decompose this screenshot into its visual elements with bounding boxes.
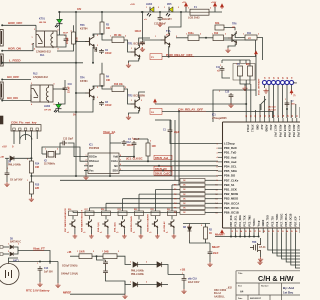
- svg-text:2: 2: [201, 225, 202, 227]
- ground Q9: [172, 234, 177, 238]
- wire RTC Vss down: [85, 170, 87, 175]
- svg-text:C10: C10: [68, 84, 73, 86]
- resistor RP1 1K: [180, 188, 205, 192]
- wire XTAL2 to MCU: [250, 84, 252, 118]
- wire R3 to R5: [102, 34, 112, 40]
- svg-text:22: 22: [231, 231, 233, 233]
- wire RL1 coil to C3: [57, 35, 66, 37]
- wire P0 to pin: [205, 184, 218, 186]
- capacitor C10: [63, 86, 68, 92]
- diode D10: [133, 262, 138, 267]
- IC1 bottom pin 11: [281, 228, 283, 233]
- wire ISP pin2 down: [268, 85, 270, 119]
- svg-text:1: 1: [155, 36, 156, 38]
- svg-text:50: 50: [282, 77, 284, 79]
- svg-text:GND2: GND2: [262, 219, 265, 226]
- wire xtal net left: [155, 103, 246, 105]
- junction: [178, 110, 180, 112]
- IC1 top pin 3: [259, 118, 261, 122]
- svg-text:PC6_TOSC: PC6_TOSC: [276, 213, 279, 226]
- wire POR vertical: [255, 40, 257, 57]
- wire Q9 emitter: [173, 229, 175, 234]
- wire Vbat bus y176: [31, 175, 218, 177]
- junction: [101, 85, 103, 87]
- svg-text:2: 2: [200, 34, 201, 36]
- wire ISP pin1 to ground: [264, 85, 266, 89]
- svg-text:Title: Title: [238, 272, 243, 275]
- svg-text:39: 39: [287, 115, 289, 117]
- svg-text:ADC3_PA3: ADC3_PA3: [292, 125, 295, 138]
- capacitor C21: [103, 269, 108, 275]
- wire R15 to ground: [30, 194, 32, 197]
- fuse F1: [190, 9, 209, 15]
- svg-text:1: 1: [45, 149, 46, 151]
- IC1 left pin 3: [218, 152, 223, 154]
- wire P4 drop to cell: [105, 203, 107, 211]
- svg-text:9: 9: [216, 180, 217, 182]
- svg-text:10: 10: [264, 77, 266, 79]
- svg-text:LED2: LED2: [44, 105, 51, 108]
- wire Q6 emitter: [123, 229, 125, 234]
- svg-text:DBUS_CaSC: DBUS_CaSC: [155, 173, 170, 176]
- svg-text:HN ON: HN ON: [39, 22, 46, 24]
- ground Q8: [155, 234, 160, 238]
- driver cell Q9: [168, 211, 177, 216]
- svg-text:1: 1: [186, 34, 187, 36]
- svg-text:C9 1uF 50V: C9 1uF 50V: [10, 180, 23, 182]
- svg-text:RTC 3.0V Battery: RTC 3.0V Battery: [26, 289, 50, 293]
- svg-text:Number: Number: [261, 286, 269, 288]
- wire cell 5 res to Q: [155, 216, 157, 220]
- svg-text:R18: R18: [101, 209, 104, 211]
- ground C15: [228, 103, 233, 108]
- transistor Q5: [102, 219, 108, 228]
- wire cell 6 res to Q: [171, 216, 173, 220]
- svg-text:Vdd: Vdd: [113, 155, 118, 159]
- svg-text:3: 3: [34, 29, 35, 31]
- wire R14 to R15: [30, 173, 32, 182]
- wire C21 to bridge low: [106, 275, 132, 285]
- svg-text:1: 1: [110, 36, 111, 38]
- wire XTAL1 to MCU: [245, 80, 247, 118]
- wire bus y180: [60, 179, 180, 181]
- diode D8: [188, 224, 192, 241]
- svg-text:s/t: s/t: [232, 26, 235, 29]
- wire R21 to bridge: [117, 256, 131, 264]
- capacitor C8: [99, 101, 104, 106]
- svg-text:PMLL4148b: PMLL4148b: [131, 273, 144, 276]
- svg-text:36: 36: [274, 115, 276, 117]
- svg-text:8: 8: [54, 104, 55, 106]
- svg-text:3: 3: [97, 45, 98, 47]
- svg-text:ZD5: ZD5: [167, 3, 172, 6]
- net label DBUS_DC: [154, 166, 172, 170]
- svg-text:60: 60: [287, 77, 289, 79]
- junction: [205, 37, 207, 39]
- svg-text:AASEKLL: AASEKLL: [214, 295, 225, 298]
- wire X2 left: [42, 153, 47, 155]
- svg-text:CON_Flo_met_key: CON_Flo_met_key: [11, 120, 37, 124]
- wire RTC left pin 4 stub: [84, 169, 88, 171]
- svg-text:XTAL2: XTAL2: [246, 125, 249, 133]
- svg-text:ADC4_PA4: ADC4_PA4: [288, 125, 291, 138]
- wire top pin5 up: [264, 96, 266, 118]
- wire R2 top: [205, 224, 207, 228]
- ground C14: [37, 282, 42, 287]
- connector J1b (left edge): [0, 54, 3, 66]
- wire R1 top: [147, 139, 149, 143]
- capacitor C16: [140, 41, 145, 46]
- svg-text:2: 2: [176, 36, 177, 38]
- wire CON pin1: [13, 131, 15, 137]
- svg-text:31: 31: [297, 115, 299, 117]
- wire RTC CLKout net: [123, 160, 218, 162]
- IC2 RTC body: [88, 153, 119, 174]
- ground TR2: [126, 115, 131, 120]
- resistor RP4 1K: [180, 202, 205, 206]
- svg-text:1: 1: [236, 64, 237, 66]
- svg-text:100nF: 100nF: [67, 37, 69, 44]
- svg-text:1: 1: [77, 251, 78, 253]
- IC1 left pin 16: [218, 212, 223, 214]
- transistor Q4: [86, 219, 92, 228]
- svg-text:PB5_OC1A: PB5_OC1A: [224, 206, 239, 210]
- svg-text:17L01: 17L01: [259, 247, 266, 249]
- svg-text:R20: R20: [134, 209, 137, 211]
- wire +5V to ISP rail: [255, 55, 257, 70]
- transistor Q9: [168, 219, 174, 228]
- svg-text:PB3_MISO: PB3_MISO: [224, 197, 239, 201]
- wire cell 3 res to Q: [122, 216, 124, 220]
- IC1 top pin 12: [300, 118, 302, 122]
- wire top pin3 up: [254, 110, 256, 118]
- wire Q5 emitter: [107, 229, 109, 234]
- junction xtal net: [245, 103, 247, 105]
- junction GN_ON: [1, 100, 3, 102]
- svg-text:BnGnBY: BnGnBY: [162, 18, 172, 21]
- IC1 left pin 4: [218, 156, 223, 158]
- wire C13 to RTC pin1: [68, 143, 84, 157]
- wire R10a to R12: [199, 37, 213, 39]
- svg-text:SDA: SDA: [113, 168, 119, 172]
- capacitor C13: [61, 141, 67, 146]
- driver cell Q4: [85, 211, 94, 216]
- svg-text:PC5_TDI: PC5_TDI: [271, 216, 274, 226]
- svg-text:TOSC1: TOSC1: [253, 218, 256, 227]
- wire P0 drop to cell: [171, 185, 173, 211]
- pad ISP pin 5: [280, 80, 284, 84]
- wire CON pin4 to R14: [30, 131, 32, 161]
- svg-text:DBUS_Aad: DBUS_Aad: [155, 157, 169, 160]
- resistor R14: [29, 161, 33, 173]
- svg-text:PD1_Txd: PD1_Txd: [299, 216, 300, 227]
- wire bridge center down: [124, 281, 126, 294]
- wire to C9: [6, 158, 8, 171]
- wire right branch: [57, 262, 59, 284]
- capacitor C4: [132, 141, 137, 147]
- net label POR box: [150, 54, 162, 60]
- svg-text:MbAT: MbAT: [212, 245, 220, 249]
- pad ISP pin 2: [267, 80, 271, 84]
- svg-text:PC0_SCL: PC0_SCL: [235, 215, 238, 226]
- IC1 bottom pin 3: [244, 228, 246, 233]
- LED2 (green): [54, 104, 62, 112]
- svg-text:C11: C11: [216, 67, 221, 69]
- wire X2 right up: [56, 146, 61, 154]
- wire P6 drop to cell: [72, 211, 74, 213]
- svg-text:LGB 2A63: LGB 2A63: [188, 17, 200, 20]
- pad ISP pin 3: [271, 80, 275, 84]
- svg-text:ADC7_PA7: ADC7_PA7: [274, 125, 277, 138]
- wire TR4 base: [76, 92, 86, 94]
- svg-text:PD6_DO: PD6_DO: [224, 174, 236, 178]
- svg-text:+5V: +5V: [182, 2, 186, 4]
- IC1 top pin 2: [254, 118, 256, 122]
- wire cell 2 res to Q: [105, 216, 107, 220]
- wire top pin4 up: [259, 104, 261, 118]
- driver cell Q3: [69, 211, 78, 216]
- IC1 left pin 7: [218, 170, 223, 172]
- wire RTC right pin 5 stub: [119, 169, 123, 171]
- wire RTC right pin 8 stub: [119, 156, 123, 158]
- ground BAT branch: [55, 283, 60, 288]
- svg-text:5: 5: [120, 169, 121, 171]
- svg-text:1: 1: [212, 34, 213, 36]
- IC1 top pin 10: [291, 118, 293, 122]
- svg-text:dA2 dA3: dA2 dA3: [268, 109, 276, 112]
- junction L_FEED: [1, 62, 3, 64]
- IC1 left pin 6: [218, 166, 223, 168]
- svg-text:5: 5: [58, 30, 59, 32]
- capacitor C18: [208, 250, 213, 256]
- svg-text:2: 2: [216, 148, 217, 150]
- svg-text:CLKo: CLKo: [111, 159, 118, 163]
- wire Vbat_FT: [18, 251, 50, 265]
- IC1 top pin 8: [282, 118, 284, 122]
- svg-text:C/H & H/W: C/H & H/W: [258, 274, 294, 283]
- wire Vbat_1A down: [109, 134, 111, 176]
- svg-text:6: 6: [216, 166, 217, 168]
- power +5V xtal net: [154, 99, 157, 104]
- IC1 left pin 12: [218, 193, 223, 195]
- junction: [75, 175, 77, 177]
- svg-text:PC2_TCK: PC2_TCK: [244, 215, 247, 226]
- LED1 (green): [55, 19, 63, 27]
- svg-text:R10a: R10a: [188, 33, 194, 35]
- ground Q5: [106, 234, 111, 238]
- svg-text:AGND: AGND: [265, 125, 268, 132]
- junction: [75, 11, 77, 13]
- svg-text:100nF: 100nF: [127, 145, 134, 147]
- wire MCU bpin3 drop: [244, 233, 246, 237]
- ground Q4: [89, 234, 94, 238]
- wire C19 down: [183, 283, 185, 289]
- svg-text:1: 1: [130, 282, 131, 284]
- svg-text:ADC2_PA2: ADC2_PA2: [297, 125, 300, 138]
- wire to C20: [97, 256, 106, 260]
- transistor Q8: [152, 219, 158, 228]
- svg-text:R15: R15: [35, 185, 40, 187]
- wire xtal up stub: [245, 60, 247, 63]
- svg-text:OSC C/R02: OSC C/R02: [214, 290, 227, 292]
- wire P1 drop to cell: [155, 190, 157, 212]
- svg-text:s/t: s/t: [248, 37, 251, 40]
- wire ISP pin3 down: [273, 85, 275, 119]
- junction: [75, 92, 77, 94]
- crystal X1 group box: [233, 64, 255, 81]
- svg-text:2: 2: [146, 282, 147, 284]
- svg-text:35: 35: [291, 231, 293, 233]
- driver cell Q5: [102, 211, 111, 216]
- wire TR4 collector to R4: [93, 86, 102, 88]
- ground ISP: [263, 89, 268, 94]
- svg-text:C14: C14: [44, 267, 49, 270]
- svg-text:10K: 10K: [106, 28, 111, 30]
- crystal X1: [238, 66, 243, 76]
- net label DBUS_CaSC: [154, 171, 172, 175]
- svg-text:22R: 22R: [35, 188, 40, 190]
- wire HOR_OFF net: [2, 24, 36, 26]
- svg-text:2: 2: [141, 100, 142, 102]
- wire Vdd node: [123, 156, 134, 158]
- IC1 bottom pin 1: [235, 228, 237, 233]
- svg-text:GND: GND: [255, 125, 258, 131]
- svg-text:Vss: Vss: [89, 168, 94, 172]
- svg-text:3: 3: [31, 83, 32, 85]
- svg-text:8: 8: [58, 49, 59, 51]
- transistor TR4: [85, 86, 94, 100]
- resistor RP6 1K: [180, 211, 205, 215]
- svg-text:70: 70: [291, 77, 293, 79]
- junction HOR_ON: [1, 50, 3, 52]
- wire R11 right down: [257, 38, 263, 61]
- wire ISP pin4 down: [277, 85, 279, 119]
- svg-text:8: 8: [216, 176, 217, 178]
- svg-text:C12: C12: [127, 142, 132, 144]
- svg-text:1: 1: [86, 155, 87, 157]
- junction: [30, 157, 32, 159]
- svg-text:PC4_TDO: PC4_TDO: [267, 215, 270, 226]
- svg-text:1: 1: [131, 48, 132, 50]
- wire R13 down: [57, 44, 74, 51]
- ground TR1: [126, 63, 131, 68]
- svg-text:1: 1: [102, 251, 103, 253]
- svg-text:1: 1: [216, 143, 217, 145]
- wire P3 net: [123, 198, 181, 200]
- svg-text:PMLL4148b: PMLL4148b: [8, 164, 21, 167]
- LED D4 (yellow): [150, 7, 154, 12]
- svg-text:40: 40: [277, 77, 280, 79]
- svg-text:2: 2: [71, 31, 72, 33]
- wire stub a: [155, 119, 171, 121]
- svg-text:LCDsup: LCDsup: [224, 142, 235, 146]
- wire bus y180 right: [205, 179, 218, 181]
- wire MCU bpin4 drop: [248, 233, 250, 237]
- wire to D5b: [3, 253, 9, 255]
- power +5V flag 2: [221, 4, 224, 9]
- svg-text:35: 35: [269, 115, 271, 117]
- wire C11 to X1: [222, 59, 240, 61]
- svg-text:PB7_SCK: PB7_SCK: [230, 215, 233, 226]
- wire to R13: [73, 25, 75, 32]
- svg-text:L_FEED: L_FEED: [9, 59, 21, 63]
- wire top pin11 up: [290, 100, 292, 118]
- wire P6 net: [73, 212, 180, 214]
- power +5V ISP rail: [255, 51, 258, 56]
- wire CON pin2: [19, 131, 21, 137]
- wire C10 down to LED2: [59, 92, 66, 104]
- wire to C10: [64, 80, 66, 86]
- wire RTC right pin 7 stub: [119, 160, 123, 162]
- IC1 left pin 1: [218, 143, 223, 145]
- relay RL1: [36, 31, 57, 48]
- junction: [49, 261, 51, 263]
- IC1 left pin 13: [218, 198, 223, 200]
- wire X1 top: [240, 60, 250, 63]
- wire MCU bpin13 staircase: [291, 233, 300, 265]
- wire P6 to pin: [205, 212, 218, 214]
- svg-text:38: 38: [283, 115, 285, 117]
- capacitor C9: [5, 171, 10, 177]
- capacitor C2: [285, 101, 290, 107]
- wire RTC NC net: [123, 165, 218, 167]
- wire P5 net: [90, 207, 181, 209]
- junction: [59, 11, 61, 13]
- wire ISP to IC corner: [213, 90, 256, 122]
- IC1 bottom pin 15: [299, 228, 301, 233]
- wire Q8 emitter: [156, 229, 158, 234]
- wire HOR_ON net: [2, 44, 34, 51]
- svg-text:2: 2: [146, 262, 147, 264]
- svg-text:PC3_TMS: PC3_TMS: [248, 215, 251, 227]
- wire TR8 source: [260, 254, 262, 258]
- wire top pin13 up: [299, 107, 301, 118]
- svg-text:KST84: KST84: [80, 27, 88, 30]
- svg-text:PD5_SDA: PD5_SDA: [224, 169, 237, 173]
- svg-text:30: 30: [292, 115, 294, 117]
- svg-text:RL1: RL1: [40, 54, 45, 57]
- wire P1 to pin: [205, 189, 218, 191]
- wire POR_RELAY_OFF net: [162, 56, 256, 58]
- svg-text:PC1_SDA: PC1_SDA: [239, 215, 242, 226]
- svg-text:10R: 10R: [152, 146, 157, 148]
- IC1 top pin 1: [250, 118, 252, 122]
- junction: [159, 11, 161, 13]
- svg-text:PD6_OC1B: PD6_OC1B: [290, 213, 293, 226]
- svg-text:R19: R19: [118, 209, 121, 211]
- IC1 left pin 14: [218, 202, 223, 204]
- resistor R3: [100, 22, 104, 34]
- svg-text:s/t: s/t: [144, 18, 147, 21]
- wire bus vertical b: [174, 120, 176, 180]
- IC1 left pin 9: [218, 179, 223, 181]
- svg-text:32: 32: [277, 231, 279, 233]
- wire P0 net: [172, 184, 180, 186]
- svg-text:MHL 2(A): MHL 2(A): [114, 222, 117, 232]
- junction: [39, 261, 41, 263]
- svg-text:1: 1: [130, 262, 131, 264]
- svg-text:2: 2: [93, 251, 94, 253]
- diode D5b: [10, 252, 13, 256]
- svg-text:2: 2: [97, 87, 98, 89]
- resistor RP5 1K: [180, 206, 205, 210]
- svg-text:+4B: +4B: [67, 251, 72, 254]
- wire T1A base: [143, 39, 162, 41]
- svg-text:HOR_OFF: HOR_OFF: [8, 21, 23, 25]
- wire CON pin1 down: [13, 137, 15, 144]
- svg-text:(IC1_CLK/SC: (IC1_CLK/SC: [126, 157, 143, 161]
- svg-text:R2b: R2b: [215, 23, 220, 25]
